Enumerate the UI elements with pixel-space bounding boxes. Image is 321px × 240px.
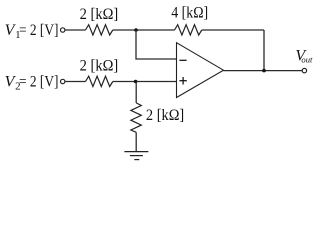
terminal circle V2 (61, 79, 65, 83)
terminal circle V1 (61, 28, 65, 32)
wire R3 to node B and plus input (113, 81, 177, 83)
wire V1 to R1 (65, 29, 86, 31)
wire corner down to output node (263, 30, 265, 71)
output junction dot (262, 69, 266, 73)
wire R2 to top-right corner (202, 29, 264, 31)
svg-text:2 [kΩ]: 2 [kΩ] (80, 6, 119, 23)
resistor R1 zigzag (86, 25, 113, 35)
terminal circle Vout (302, 68, 306, 72)
resistor R2 zigzag 4k feedback (175, 25, 202, 35)
output wire (224, 70, 303, 72)
wire node A down to minus input (136, 30, 177, 59)
node B junction dot (134, 80, 138, 84)
svg-text:out: out (301, 55, 313, 65)
wire R1 to node A and on to R2 (113, 29, 175, 31)
op-amp plus input sign (179, 77, 186, 85)
svg-text:= 2 [V]: = 2 [V] (19, 73, 59, 90)
label V2 = 2 [V] (5, 73, 59, 92)
op-amp minus input sign (179, 59, 186, 61)
wire V2 to R3 (65, 81, 86, 83)
wire node B down to R4 (135, 82, 137, 103)
ground symbol (124, 152, 148, 160)
svg-text:4 [kΩ]: 4 [kΩ] (171, 5, 208, 22)
svg-text:2 [kΩ]: 2 [kΩ] (146, 107, 184, 124)
svg-text:2 [kΩ]: 2 [kΩ] (80, 58, 119, 75)
node A junction dot (134, 28, 138, 32)
label Vout (295, 47, 313, 64)
label V1 = 2 [V] (5, 22, 59, 41)
resistor R3 zigzag (86, 76, 113, 86)
resistor R4 vertical zigzag (131, 103, 141, 132)
wire R4 to ground (135, 132, 137, 151)
op-amp U1 triangle (177, 43, 224, 98)
svg-text:= 2 [V]: = 2 [V] (19, 22, 59, 39)
